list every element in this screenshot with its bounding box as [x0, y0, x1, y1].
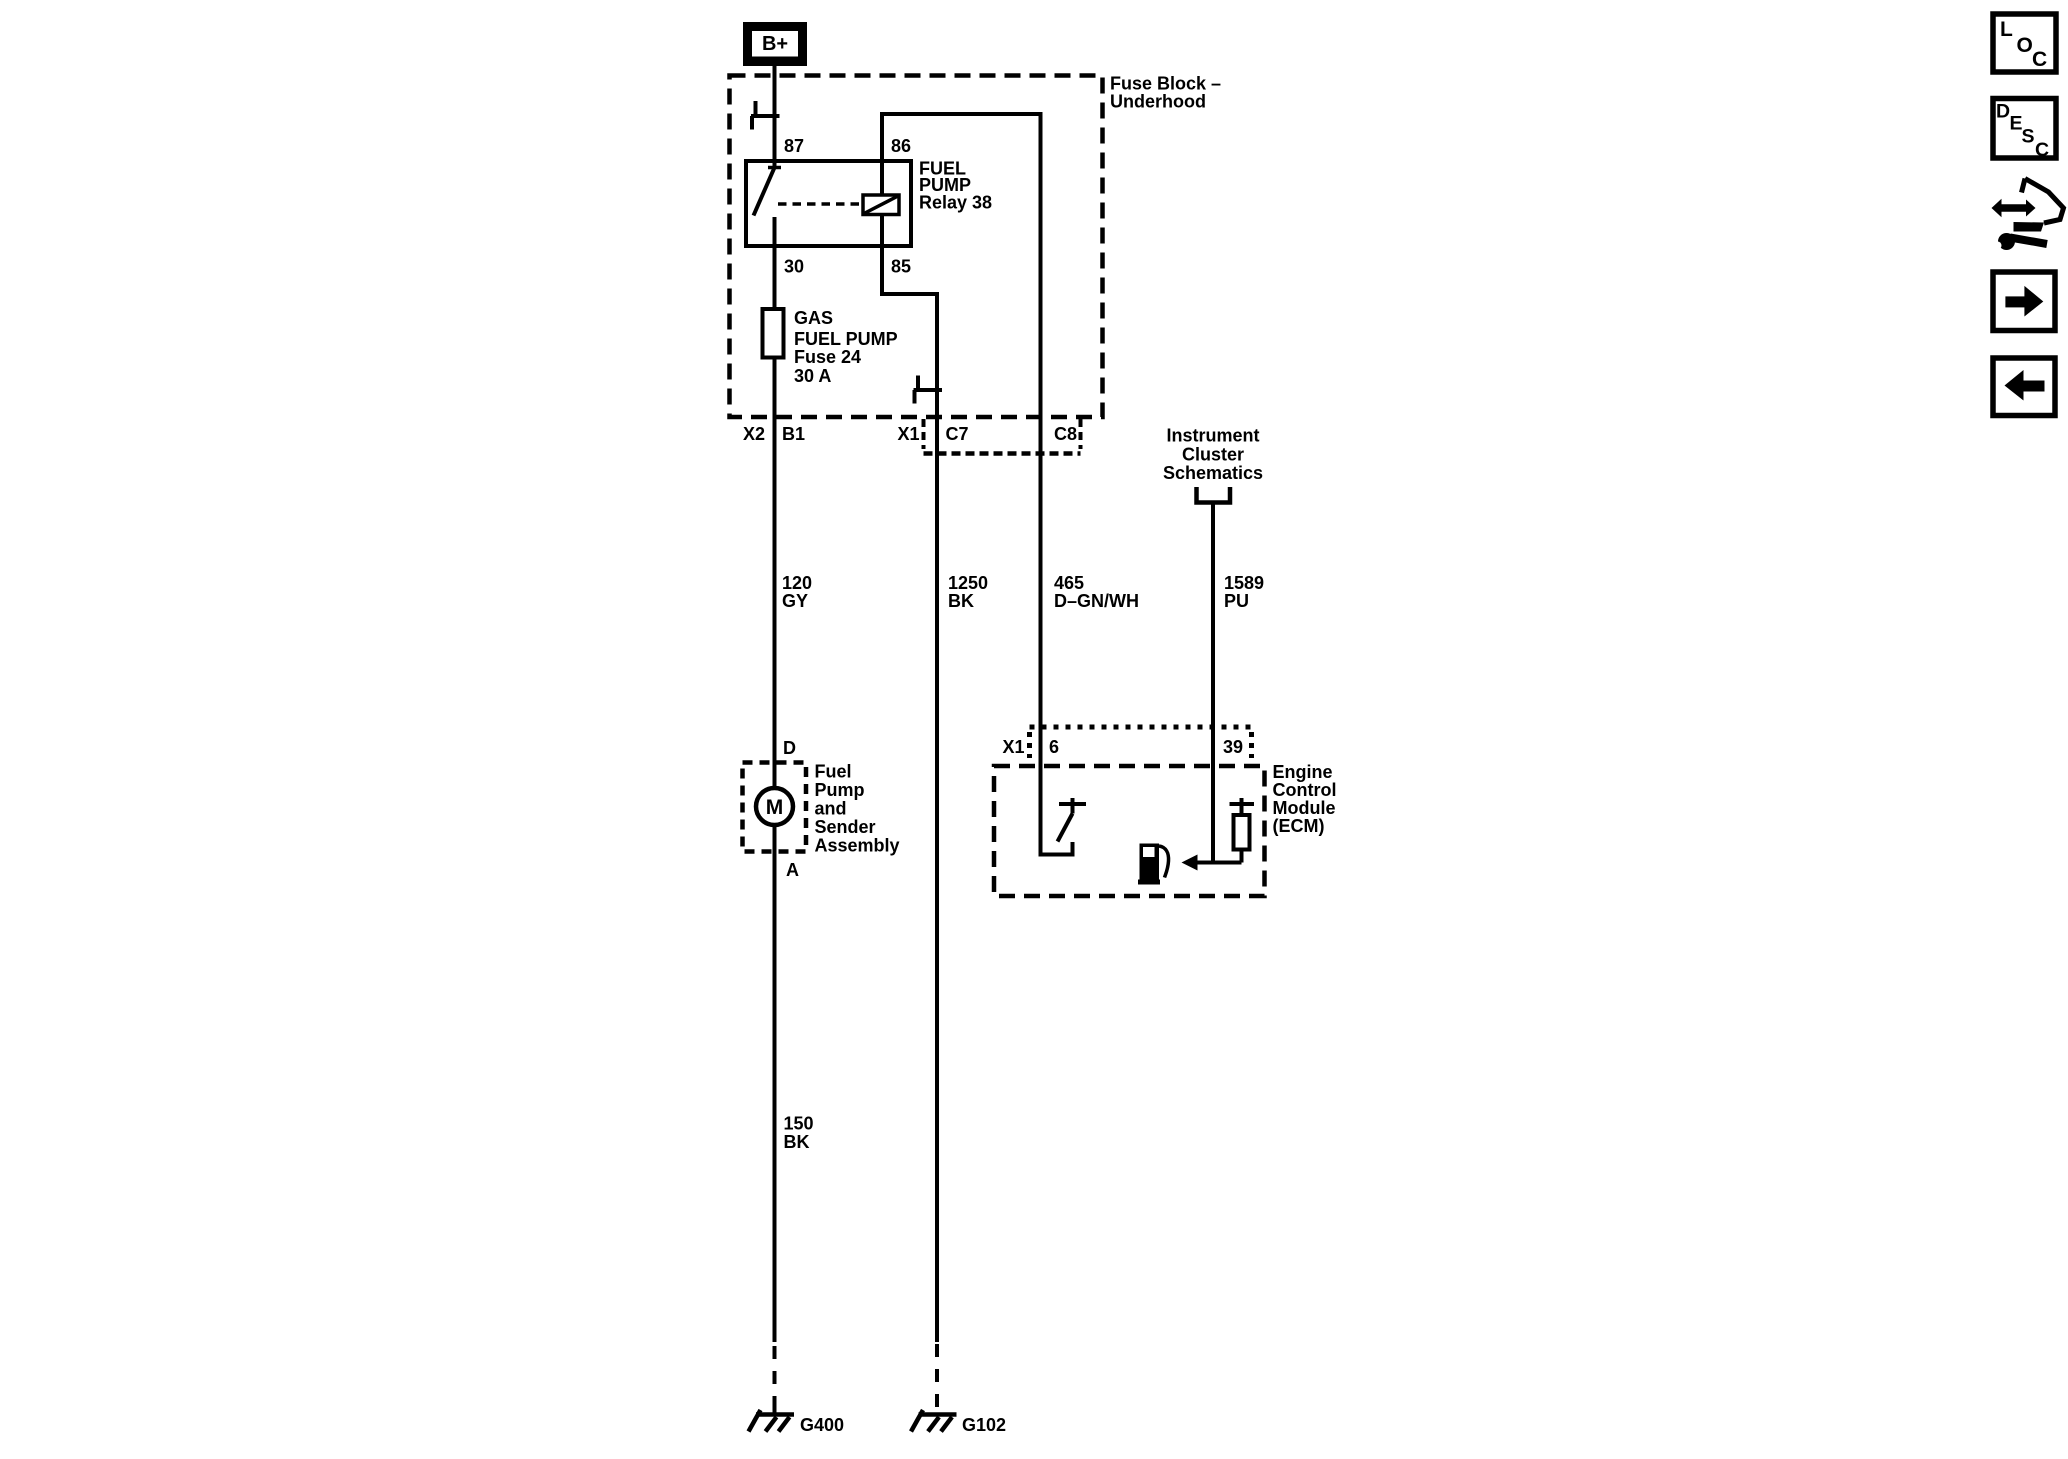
relay pin 30 stub: [773, 217, 777, 246]
svg-text:30 A: 30 A: [794, 366, 831, 386]
label Fuse Block - Underhood: [1110, 74, 1221, 112]
svg-text:Cluster: Cluster: [1182, 445, 1244, 465]
wire label 1250 BK: [948, 573, 988, 611]
nav icon DESC: [1993, 99, 2056, 162]
svg-text:C7: C7: [946, 424, 969, 444]
svg-text:120: 120: [782, 573, 812, 593]
ECM connector dotted strip: [1030, 727, 1255, 758]
motor M circle: [756, 788, 793, 825]
svg-text:BK: BK: [784, 1132, 810, 1152]
svg-text:Underhood: Underhood: [1110, 92, 1206, 112]
wire label 150 BK: [784, 1114, 814, 1153]
svg-text:Instrument: Instrument: [1166, 426, 1259, 446]
svg-text:Assembly: Assembly: [815, 836, 900, 856]
svg-text:X2: X2: [743, 424, 765, 444]
svg-text:GY: GY: [782, 591, 808, 611]
svg-text:D–GN/WH: D–GN/WH: [1054, 591, 1139, 611]
label FUEL PUMP Relay 38: [919, 159, 992, 213]
wire label 120 GY: [782, 573, 812, 611]
fuel gauge icon: [1138, 844, 1169, 885]
svg-text:D: D: [783, 738, 796, 758]
svg-text:PU: PU: [1224, 591, 1249, 611]
svg-text:D: D: [1996, 101, 2010, 123]
relay pin 86 stub: [880, 161, 884, 195]
wire B+ feed / 120 GY / 150 BK vertical run: [773, 64, 777, 1342]
relay switch blade: [754, 168, 775, 216]
label Engine Control Module (ECM): [1273, 762, 1337, 836]
svg-text:Fuse 24: Fuse 24: [794, 347, 861, 367]
wire label 465 D-GN/WH: [1054, 573, 1139, 611]
svg-text:Relay 38: Relay 38: [919, 193, 992, 213]
svg-text:C8: C8: [1054, 424, 1077, 444]
dashed wire end to G400: [773, 1346, 777, 1415]
wire 465 D-GN/WH from relay pin 86 around to ECM pin 6: [882, 114, 1073, 855]
svg-text:S: S: [2022, 126, 2035, 148]
svg-text:150: 150: [784, 1114, 814, 1134]
svg-text:1250: 1250: [948, 573, 988, 593]
dashed wire end to G102: [935, 1344, 939, 1414]
svg-text:Pump: Pump: [815, 780, 865, 800]
svg-text:Engine: Engine: [1273, 762, 1333, 782]
svg-text:L: L: [2000, 18, 2013, 41]
ground G102: [911, 1410, 1006, 1435]
relay pin 87 stub: [773, 161, 777, 168]
svg-text:Module: Module: [1273, 798, 1336, 818]
svg-text:(ECM): (ECM): [1273, 816, 1325, 836]
ECM internal resistor: [1230, 798, 1255, 863]
svg-text:C: C: [2032, 48, 2047, 71]
ECM driver (switch) symbol: [1058, 798, 1087, 842]
svg-text:C: C: [2035, 139, 2049, 161]
relay actuator dashed link: [778, 202, 862, 206]
arrow to fuel gauge: [1182, 855, 1242, 871]
svg-text:1589: 1589: [1224, 573, 1264, 593]
connector clip on 1250 BK wire: [914, 376, 943, 404]
wire 1250 BK from relay pin 85 down to G102: [882, 246, 937, 1342]
label Instrument Cluster Schematics: [1163, 426, 1263, 484]
svg-text:Schematics: Schematics: [1163, 463, 1263, 483]
power symbol B+: [743, 22, 807, 66]
svg-text:GAS: GAS: [794, 308, 833, 328]
ECM dashed box: [994, 766, 1265, 896]
relay FUEL PUMP Relay 38 box: [746, 161, 911, 246]
fuse block underhood dashed box: [730, 76, 1103, 418]
fuel pump and sender assembly dashed box: [743, 763, 807, 852]
label Fuel Pump and Sender Assembly: [815, 762, 900, 856]
svg-text:BK: BK: [948, 591, 974, 611]
relay coil: [863, 195, 899, 215]
nav icon forward arrow: [1993, 272, 2055, 331]
svg-text:B+: B+: [762, 33, 788, 55]
svg-text:Sender: Sender: [815, 817, 876, 837]
svg-text:G400: G400: [800, 1415, 844, 1435]
svg-text:87: 87: [784, 136, 804, 156]
svg-text:Fuel: Fuel: [815, 762, 852, 782]
svg-text:X1: X1: [898, 424, 920, 444]
svg-text:O: O: [2017, 34, 2033, 57]
svg-text:Fuse Block –: Fuse Block –: [1110, 74, 1221, 94]
nav icon LOC: [1993, 14, 2056, 72]
wire 1589 PU from instrument cluster to ECM pin 39: [1211, 502, 1215, 863]
label GAS FUEL PUMP Fuse 24 30 A: [794, 308, 898, 386]
connector X1 dashed outline below fuse block: [924, 419, 1081, 454]
off-page bracket to instrument cluster: [1197, 487, 1231, 503]
svg-text:and: and: [815, 799, 847, 819]
svg-text:G102: G102: [962, 1415, 1006, 1435]
svg-text:B1: B1: [782, 424, 805, 444]
svg-text:86: 86: [891, 136, 911, 156]
svg-text:85: 85: [891, 257, 911, 277]
wire label 1589 PU: [1224, 573, 1264, 611]
relay pin 85 stub: [880, 215, 884, 247]
svg-text:A: A: [786, 860, 799, 880]
svg-text:6: 6: [1049, 737, 1059, 757]
nav icon hand with arrow and wrench: [1989, 179, 2064, 253]
svg-text:M: M: [766, 796, 784, 819]
svg-text:30: 30: [784, 257, 804, 277]
ground G400: [749, 1410, 845, 1435]
svg-text:465: 465: [1054, 573, 1084, 593]
svg-text:39: 39: [1223, 737, 1243, 757]
nav icon back arrow: [1993, 358, 2055, 416]
svg-text:Control: Control: [1273, 780, 1337, 800]
fuse GAS FUEL PUMP Fuse 24 30A: [763, 309, 784, 358]
svg-text:FUEL PUMP: FUEL PUMP: [794, 329, 898, 349]
svg-text:X1: X1: [1003, 737, 1025, 757]
connector clip on B+ feed: [751, 101, 780, 130]
